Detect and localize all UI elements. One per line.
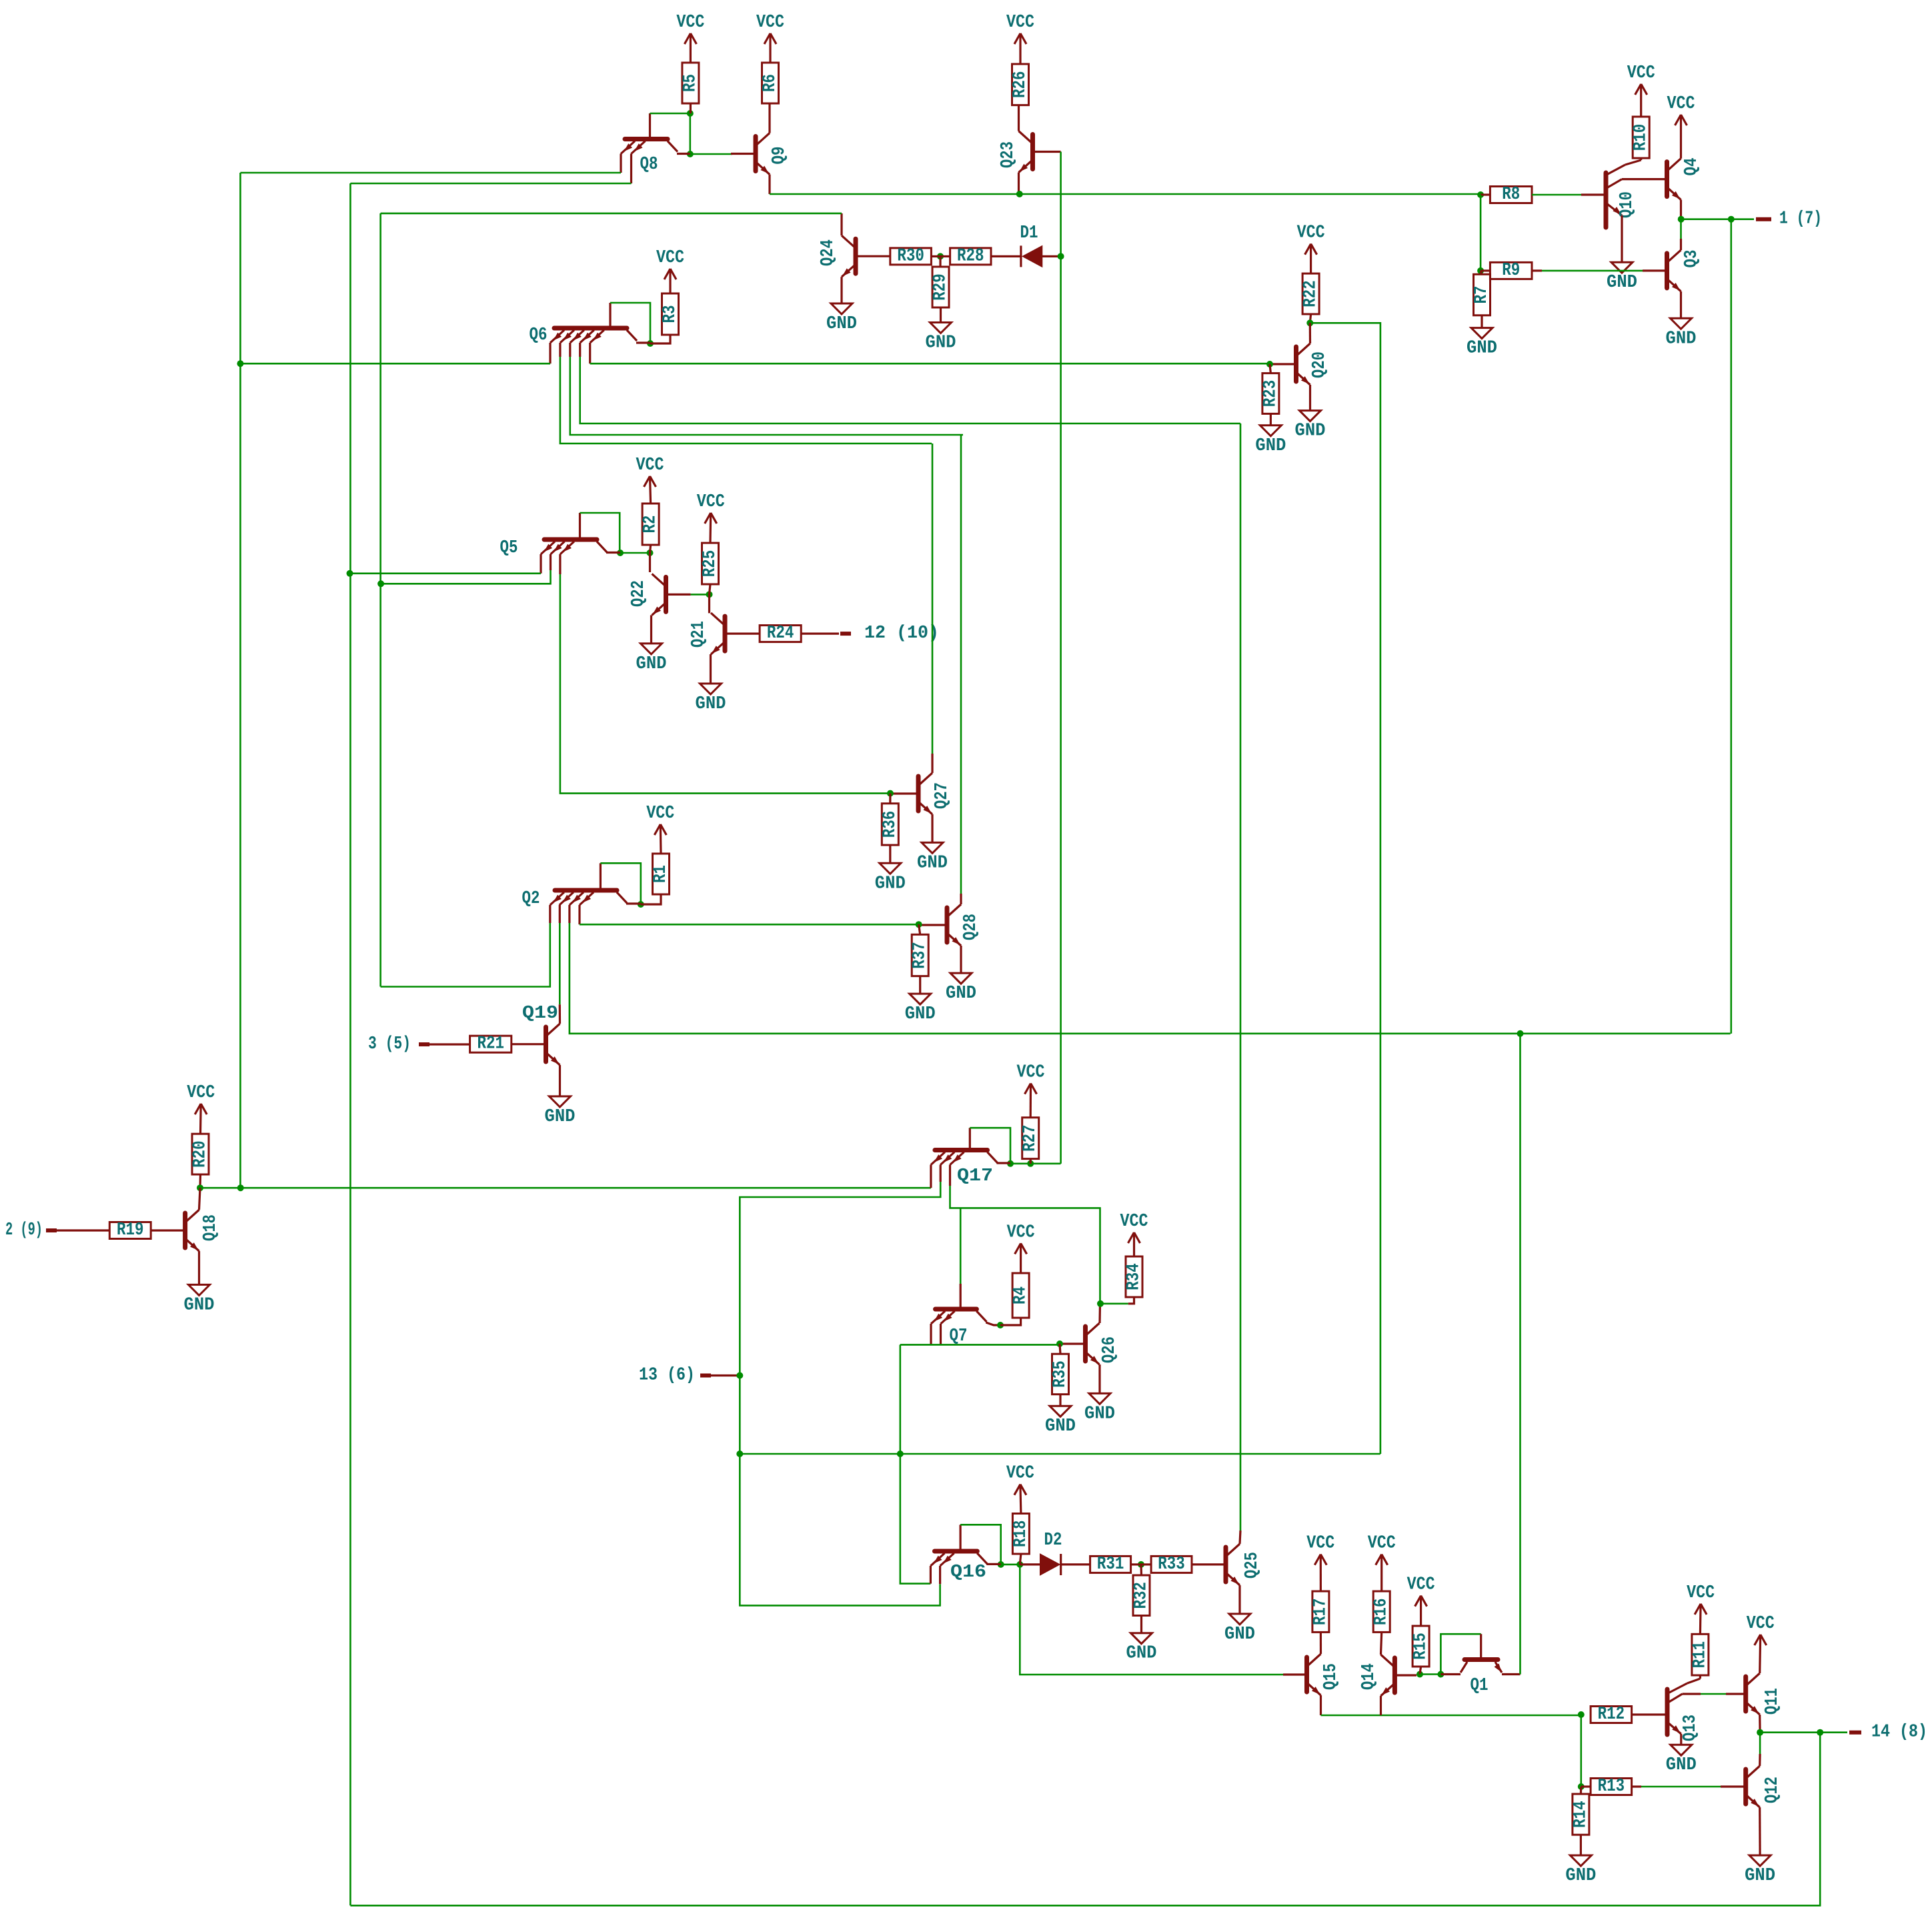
wire Q19 emitter lead <box>559 1065 561 1096</box>
wire Q24 collector lead <box>840 213 842 235</box>
wire Q17 base loop <box>970 1128 1010 1164</box>
wire Q18 emitter lead <box>198 1251 200 1284</box>
svg-text:GND: GND <box>1126 1644 1157 1664</box>
wire Q9 collector to R6 <box>768 103 770 133</box>
wire R22 to node <box>1310 314 1310 323</box>
svg-text:Q17: Q17 <box>957 1166 993 1186</box>
svg-text:GND: GND <box>184 1295 215 1315</box>
wire Q17 emitter 1 lead <box>930 1165 932 1188</box>
wire Q10 emitter lead <box>1621 215 1623 262</box>
resistor R1 <box>651 854 671 894</box>
svg-text:GND: GND <box>696 694 726 714</box>
svg-text:12 (10): 12 (10) <box>864 624 939 644</box>
transistor Q27 <box>890 773 952 816</box>
svg-text:GND: GND <box>1224 1625 1255 1645</box>
wire node to R13 <box>1581 1785 1591 1787</box>
wire R36 to ground <box>889 845 891 863</box>
junction Q14 base/R15 <box>1416 1671 1423 1678</box>
wire Q17 collector to node <box>997 1162 1011 1164</box>
junction clock feedback top <box>1517 1030 1524 1037</box>
junction Q7 emitter net on R22 net <box>897 1451 904 1457</box>
wire Q2 emitter 3 lead <box>568 905 570 923</box>
junction Q28 base/R37 <box>916 921 922 928</box>
wire Q5 node to R2 node <box>620 552 650 554</box>
wire R13 right stub <box>1632 1785 1641 1787</box>
wire Q17 collector node to feedback vertical <box>1010 1163 1060 1165</box>
svg-text:VCC: VCC <box>1297 223 1325 243</box>
svg-text:VCC: VCC <box>646 804 674 824</box>
svg-text:R8: R8 <box>1502 185 1520 205</box>
svg-text:GND: GND <box>1565 1866 1596 1886</box>
resistor R14 <box>1571 1794 1591 1835</box>
svg-text:GND: GND <box>926 333 956 353</box>
junction R18/D2 <box>1016 1561 1023 1568</box>
wire D2 to R31 <box>1061 1563 1090 1565</box>
ground for R29 <box>926 323 956 353</box>
wire Q2 collector to node <box>626 902 641 904</box>
wire R9 right stub <box>1532 269 1542 271</box>
resistor R18 <box>1011 1514 1031 1555</box>
junction Q26 base/R35 <box>1056 1340 1063 1347</box>
wire R35 to ground <box>1059 1394 1061 1406</box>
wire Q26 collector lead <box>1098 1304 1101 1323</box>
wire Q23 base vertical net <box>1060 152 1062 1164</box>
wire R18 to node <box>1020 1554 1021 1565</box>
junction R20/Q18 collector <box>197 1184 203 1191</box>
svg-text:R24: R24 <box>767 624 794 644</box>
resistor R4 <box>1011 1273 1031 1318</box>
wire R15 node to Q1 <box>1420 1673 1440 1675</box>
wire Q12 emitter lead <box>1759 1807 1761 1855</box>
wire R8 node down to R9 node <box>1480 195 1482 271</box>
svg-text:VCC: VCC <box>676 13 704 33</box>
pin dash port 2 <box>46 1228 57 1232</box>
wire node to R14 <box>1580 1787 1583 1794</box>
wire slave feedback left vertical <box>349 183 351 1905</box>
junction output 14 feedback <box>1817 1729 1823 1736</box>
svg-text:GND: GND <box>636 654 667 674</box>
svg-text:VCC: VCC <box>656 248 684 268</box>
transistor Q24 <box>818 235 890 278</box>
wire junction to R29 <box>939 256 941 267</box>
transistor Q28 <box>919 904 981 947</box>
wire Q5 collector to node <box>606 552 620 554</box>
wire Q14 collector to R16 <box>1381 1632 1382 1655</box>
transistor Q8 <box>621 139 678 175</box>
wire node to R34 <box>1100 1303 1128 1305</box>
wire Q16 base red <box>959 1525 961 1549</box>
ground for Q12 <box>1745 1855 1775 1886</box>
wire R27 to node <box>1030 1159 1032 1164</box>
wire Q25 emitter lead <box>1238 1585 1240 1614</box>
wire R5 node down to Q8 collector node <box>690 113 692 154</box>
port label 12 (10) <box>864 624 939 644</box>
wire Q6 emitter 5 to Q20 base <box>590 363 1270 365</box>
wire R12 node to R13 node <box>1581 1715 1583 1787</box>
junction R2 bottom <box>647 550 654 556</box>
svg-text:Q15: Q15 <box>1321 1663 1341 1690</box>
resistor R2 <box>641 504 661 545</box>
svg-text:Q27: Q27 <box>932 782 952 809</box>
svg-text:R25: R25 <box>700 550 720 578</box>
wire Q22 emitter lead <box>650 615 652 644</box>
svg-text:GND: GND <box>1745 1866 1775 1886</box>
wire Q6 emitter 2 to Q27 collector <box>560 357 932 443</box>
svg-text:Q6: Q6 <box>530 325 548 345</box>
wire Q15 emitter lead <box>1320 1695 1322 1715</box>
wire Q5 emitter 3 lead <box>559 554 561 574</box>
svg-text:VCC: VCC <box>1368 1534 1396 1554</box>
svg-text:R14: R14 <box>1571 1801 1591 1828</box>
svg-text:VCC: VCC <box>697 492 725 512</box>
port label 2 (9) <box>5 1220 43 1240</box>
wire output node to pin <box>1731 218 1754 220</box>
svg-text:Q3: Q3 <box>1682 250 1702 268</box>
svg-text:R5: R5 <box>680 74 700 92</box>
wire Q6 emitter 2 lead <box>559 343 561 357</box>
ground for Q19 <box>545 1096 576 1127</box>
pin dash port 12 <box>840 632 851 636</box>
svg-text:GND: GND <box>826 314 857 334</box>
wire R22 net horizontal <box>740 1453 1380 1455</box>
wire Q2 emitter 4 to Q28 base <box>580 924 919 926</box>
junction R27 bottom <box>1027 1160 1034 1167</box>
wire Q1 base loop <box>1440 1634 1481 1674</box>
transistor Q20 <box>1270 343 1330 386</box>
wire Q12 base pin <box>1721 1785 1746 1787</box>
svg-text:VCC: VCC <box>1007 1222 1035 1242</box>
wire Q7 base red <box>960 1284 962 1307</box>
junction Q5 emitter 2 <box>377 580 384 587</box>
wire Q24 emitter lead <box>840 277 842 303</box>
svg-text:GND: GND <box>1607 273 1637 293</box>
wire Q21 emitter lead <box>710 654 712 684</box>
junction output to feedback <box>1728 216 1735 223</box>
wire R28 to D1 <box>991 255 1021 257</box>
wire Q6 emitter 3 lead <box>569 343 571 357</box>
wire Q2 emitter 3 to clock feedback <box>570 923 1731 1034</box>
transistor Q7 <box>931 1309 986 1346</box>
svg-text:R29: R29 <box>931 273 951 301</box>
power VCC for R10 <box>1627 63 1655 117</box>
svg-text:R32: R32 <box>1132 1582 1152 1609</box>
power VCC for R22 <box>1297 223 1325 273</box>
wire R30 to junction <box>931 255 940 257</box>
power VCC for R2 <box>636 455 664 504</box>
junction Q1 collector <box>1437 1671 1444 1678</box>
svg-text:R18: R18 <box>1011 1521 1031 1548</box>
wire Q17 emitter 2 lead <box>940 1165 942 1182</box>
junction clock net / R22 net <box>736 1451 743 1457</box>
wire Q20 emitter lead <box>1309 385 1311 411</box>
resistor R8 <box>1490 185 1532 205</box>
resistor R12 <box>1591 1705 1632 1725</box>
svg-text:R37: R37 <box>910 942 930 969</box>
svg-text:VCC: VCC <box>1017 1063 1045 1083</box>
wire R19 to Q18 base <box>151 1229 185 1231</box>
wire Q18 collector lead <box>199 1188 201 1210</box>
wire Q7 base up to emitter-3 net <box>960 1208 962 1284</box>
wire Q16 collector node <box>1001 1564 1020 1566</box>
svg-text:VCC: VCC <box>1667 94 1695 114</box>
wire Q28 collector lead <box>960 894 962 904</box>
svg-text:R13: R13 <box>1598 1777 1625 1797</box>
wire Q24 collector net <box>381 213 842 215</box>
svg-text:Q5: Q5 <box>500 538 518 558</box>
svg-text:VCC: VCC <box>1306 1534 1334 1554</box>
junction Q11/Q12 output <box>1757 1729 1763 1736</box>
power VCC for R25 <box>697 492 725 543</box>
resistor R27 <box>1020 1118 1040 1159</box>
svg-text:R30: R30 <box>897 246 924 266</box>
svg-text:Q19: Q19 <box>522 1004 558 1024</box>
ground for Q22 <box>636 644 667 674</box>
wire R32 to ground <box>1140 1616 1142 1633</box>
junction Q20 base/R23 <box>1266 361 1273 367</box>
wire Q15/Q14 emitters to R12 node <box>1321 1715 1581 1717</box>
wire Q5 emitter 1 lead <box>540 554 542 574</box>
power VCC for R5 <box>676 13 704 63</box>
svg-text:Q11: Q11 <box>1763 1688 1783 1715</box>
wire Q8 emitter 2 net <box>350 183 631 185</box>
svg-text:GND: GND <box>946 984 976 1004</box>
ground for Q3 <box>1666 318 1697 349</box>
svg-text:R28: R28 <box>957 246 984 266</box>
transistor Q3 <box>1667 250 1703 293</box>
wire Q16 emitter 1 lead <box>930 1566 932 1584</box>
power VCC for R11 <box>1687 1583 1715 1634</box>
svg-text:R3: R3 <box>660 305 680 323</box>
ground for Q20 <box>1295 411 1326 441</box>
svg-text:R22: R22 <box>1301 280 1321 307</box>
wire output feedback vertical <box>1731 219 1733 1034</box>
svg-text:Q14: Q14 <box>1359 1663 1379 1690</box>
power VCC for R1 <box>646 804 674 854</box>
wire pin to R21 <box>429 1043 470 1045</box>
svg-text:Q18: Q18 <box>201 1214 221 1241</box>
wire output node <box>1681 218 1731 220</box>
wire Q28 emitter lead <box>960 946 962 973</box>
ground for R35 <box>1045 1406 1076 1436</box>
resistor R10 <box>1631 117 1651 158</box>
svg-text:R9: R9 <box>1502 261 1520 281</box>
svg-text:R4: R4 <box>1011 1286 1031 1304</box>
wire Q7 collector to node <box>986 1322 1000 1325</box>
resistor R9 <box>1490 261 1532 281</box>
resistor R37 <box>910 934 930 976</box>
wire Q8 emitter 2 lead <box>630 154 632 184</box>
power VCC for R16 <box>1368 1534 1396 1591</box>
svg-text:D2: D2 <box>1044 1531 1062 1551</box>
wire R7 to ground <box>1481 315 1483 328</box>
wire R21 to Q19 base <box>512 1043 546 1045</box>
junction R31/R33/R32 <box>1138 1561 1144 1568</box>
wire Q23 emitter lead <box>1018 173 1020 195</box>
svg-text:R34: R34 <box>1124 1263 1144 1290</box>
pin dash port 13 <box>700 1374 711 1378</box>
wire Q5 base loop <box>580 513 620 553</box>
port label 1 (7) <box>1779 209 1822 229</box>
ground for R7 <box>1467 328 1497 359</box>
svg-text:Q16: Q16 <box>950 1563 986 1583</box>
svg-text:R15: R15 <box>1411 1633 1431 1660</box>
wire pin to R19 <box>55 1229 109 1231</box>
ground for Q28 <box>946 973 976 1004</box>
svg-text:Q26: Q26 <box>1100 1336 1120 1363</box>
wire Q1 collector to node <box>1440 1673 1461 1675</box>
wire Q27 emitter lead <box>931 814 933 842</box>
wire Q1 emitter to clock vertical <box>1502 1673 1521 1675</box>
wire Q17 emitter 2 to clock port net <box>740 1182 940 1605</box>
wire Q28 collector up <box>960 435 962 894</box>
svg-text:14 (8): 14 (8) <box>1871 1723 1927 1743</box>
wire master feedback to Q6 emitter 1 <box>240 363 550 365</box>
svg-text:R11: R11 <box>1690 1641 1710 1669</box>
transistor Q23 <box>998 131 1061 174</box>
svg-text:GND: GND <box>1467 339 1497 359</box>
wire R25 to node <box>710 584 711 594</box>
svg-text:R19: R19 <box>117 1220 144 1240</box>
wire R1 to node <box>641 894 661 904</box>
resistor R34 <box>1124 1256 1144 1297</box>
wire Q20 collector lead <box>1309 323 1311 343</box>
power VCC for R15 <box>1407 1575 1435 1626</box>
wire Q3 emitter lead <box>1680 291 1682 318</box>
wire Q11 base pin <box>1726 1693 1746 1695</box>
ground for R23 <box>1255 425 1286 456</box>
wire Q2 emitter 4 lead <box>578 905 580 924</box>
ground for Q24 <box>826 303 857 334</box>
svg-text:R21: R21 <box>477 1034 504 1054</box>
svg-text:Q28: Q28 <box>961 914 981 940</box>
wire R13 to Q12 base <box>1641 1786 1721 1788</box>
wire Q3 collector lead <box>1680 239 1682 250</box>
junction R30/R28/R29 <box>937 253 944 259</box>
junction Q16 collector <box>998 1561 1004 1568</box>
svg-text:Q8: Q8 <box>640 155 658 175</box>
svg-text:VCC: VCC <box>1120 1212 1148 1232</box>
resistor R13 <box>1591 1777 1632 1797</box>
port label 14 (8) <box>1871 1723 1927 1743</box>
svg-text:R20: R20 <box>191 1140 211 1168</box>
wire R33 to Q25 base <box>1192 1563 1226 1565</box>
power VCC for R34 <box>1120 1212 1148 1256</box>
wire Q3 base pin <box>1643 269 1667 271</box>
svg-text:R26: R26 <box>1010 71 1030 99</box>
svg-text:VCC: VCC <box>756 13 784 33</box>
resistor R36 <box>880 804 900 845</box>
wire node to R8 <box>1481 193 1490 195</box>
wire R20 to node <box>199 1174 201 1188</box>
wire R23 to ground <box>1270 413 1272 425</box>
svg-text:2 (9): 2 (9) <box>5 1220 43 1240</box>
transistor Q21 <box>689 613 760 656</box>
wire Q24 collector net vertical <box>379 213 381 987</box>
wire Q27 collector lead <box>931 754 933 773</box>
svg-text:GND: GND <box>1045 1416 1076 1436</box>
wire Q6 emitter 4 lead <box>579 343 581 357</box>
svg-text:R36: R36 <box>880 811 900 838</box>
pin dash port 3 <box>419 1042 429 1046</box>
wire R12 to Q13 base <box>1632 1713 1667 1715</box>
wire Q6 emitter 5 lead <box>589 343 591 363</box>
wire Q2 emitter 2 to Q19 collector <box>559 923 561 1004</box>
wire Q10 base pin <box>1581 193 1606 195</box>
power VCC for R6 <box>756 13 784 63</box>
wire Q17 emitter 3 to Q26 collector net <box>950 1186 1100 1304</box>
svg-text:R31: R31 <box>1097 1555 1124 1575</box>
svg-text:GND: GND <box>875 874 906 894</box>
svg-text:R12: R12 <box>1598 1705 1625 1725</box>
resistor R24 <box>760 624 801 644</box>
svg-text:Q23: Q23 <box>998 141 1018 168</box>
svg-text:GND: GND <box>917 853 948 873</box>
wire junction to R33 <box>1141 1563 1151 1565</box>
ground for Q27 <box>917 842 948 873</box>
wire Q13 collector to Q11 base green <box>1701 1693 1726 1695</box>
junction Q26 collector/R34 <box>1097 1300 1104 1307</box>
transistor Q12 <box>1746 1766 1783 1809</box>
wire Q2 base <box>600 863 602 888</box>
power VCC for Q11 <box>1747 1614 1775 1645</box>
resistor R32 <box>1132 1575 1152 1616</box>
resistor R31 <box>1090 1555 1131 1575</box>
svg-text:1 (7): 1 (7) <box>1779 209 1822 229</box>
svg-text:VCC: VCC <box>1747 1614 1775 1634</box>
svg-text:R6: R6 <box>760 74 780 92</box>
svg-text:GND: GND <box>1255 436 1286 456</box>
resistor R21 <box>470 1034 512 1054</box>
svg-text:VCC: VCC <box>1006 13 1034 33</box>
wire node to R23 <box>1270 364 1270 373</box>
ground for Q10 <box>1607 262 1637 293</box>
wire Q27 collector up <box>932 443 934 754</box>
transistor Q26 <box>1060 1323 1120 1366</box>
resistor R16 <box>1372 1591 1392 1632</box>
svg-text:3 (5): 3 (5) <box>368 1034 411 1054</box>
wire Q6 collector to node <box>636 341 650 343</box>
wire R4 to node <box>1000 1318 1021 1325</box>
wire Q8 emitter 1 lead <box>620 154 622 173</box>
wire Q7 emitter 1 lead <box>930 1324 932 1344</box>
transistor Q17 <box>931 1150 998 1187</box>
wire Q2 base loop <box>600 863 640 904</box>
resistor R23 <box>1260 373 1280 414</box>
svg-text:R33: R33 <box>1158 1555 1185 1575</box>
power VCC for R4 <box>1007 1222 1035 1273</box>
junction R13 left <box>1578 1783 1585 1790</box>
wire R34 to node <box>1128 1297 1134 1304</box>
wire pin 13 to net <box>711 1374 738 1376</box>
svg-text:Q4: Q4 <box>1682 158 1702 176</box>
wire R24 to pin <box>801 632 839 634</box>
svg-text:Q12: Q12 <box>1763 1777 1783 1803</box>
power VCC for R18 <box>1006 1464 1034 1514</box>
resistor R17 <box>1310 1591 1330 1632</box>
wire master feedback vertical <box>239 173 241 1188</box>
pin dash port 14 <box>1849 1731 1861 1735</box>
resistor R19 <box>109 1220 151 1240</box>
junction R9 left <box>1477 267 1484 274</box>
ground for Q25 <box>1224 1614 1255 1645</box>
svg-text:13 (6): 13 (6) <box>639 1366 695 1386</box>
power VCC for R27 <box>1017 1063 1045 1118</box>
junction Q4/Q3 output <box>1678 216 1685 223</box>
wire Q4 emitter lead <box>1680 200 1682 219</box>
junction Q2 collector/R1 <box>638 901 644 908</box>
ground for Q21 <box>696 684 726 714</box>
wire R31 to junction <box>1131 1563 1141 1565</box>
